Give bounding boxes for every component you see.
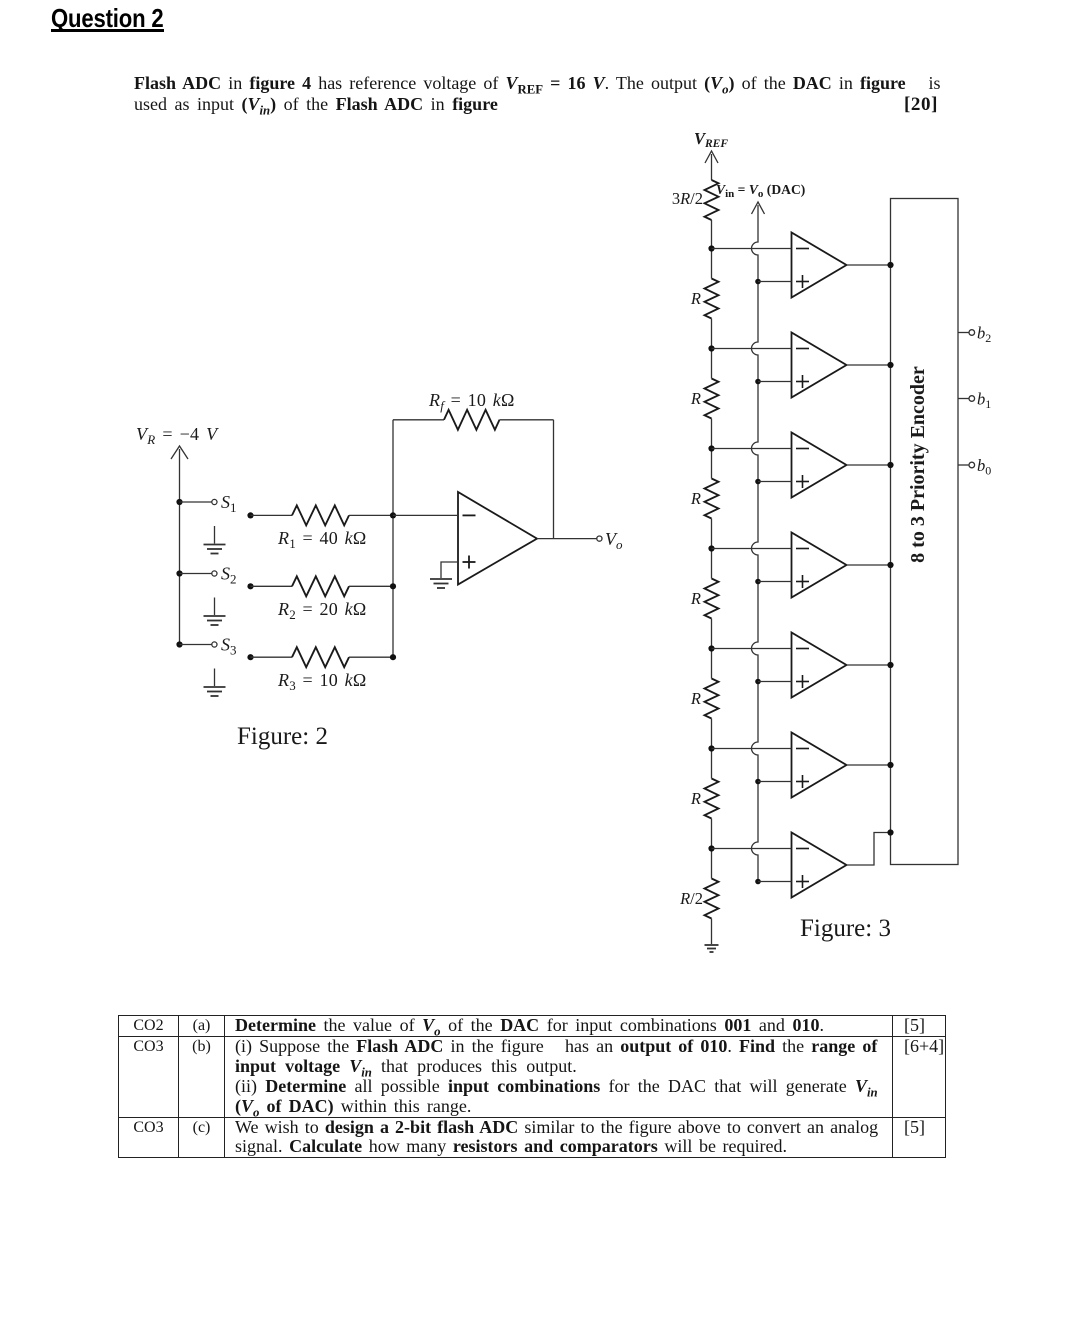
wire: inverting input: [393, 514, 458, 516]
junction output U1 at encoder: [887, 262, 893, 268]
resistor R/2: [705, 849, 719, 945]
node S2 junction: [176, 570, 182, 576]
tap node 5: [708, 645, 714, 651]
svg-text:S1: S1: [221, 492, 237, 515]
junction output U7 at encoder: [887, 829, 893, 835]
wire: Vin line with hops: [752, 205, 759, 882]
resistor Rf feedback: [393, 410, 554, 430]
resistor R2: [251, 576, 394, 596]
junction Vin plus U6: [755, 779, 761, 785]
svg-text:Vo: Vo: [605, 529, 623, 552]
node S1 junction: [176, 499, 182, 505]
resistor R3 ladder: [705, 449, 719, 549]
svg-text:Vin = Vo (DAC): Vin = Vo (DAC): [716, 182, 805, 200]
wire: minus input U7: [712, 848, 792, 850]
svg-text:R: R: [690, 489, 701, 508]
comparator U1: [792, 233, 847, 298]
wire: output U2: [847, 364, 891, 366]
wire: output U6: [847, 764, 891, 766]
wire: feedback right leg: [553, 420, 555, 539]
node R3 input: [247, 654, 253, 660]
comparator U3: [792, 433, 847, 498]
paragraph line 2: [134, 94, 498, 115]
tap node 3: [708, 445, 714, 451]
junction output U4 at encoder: [887, 562, 893, 568]
wire: minus input U5: [712, 648, 792, 650]
svg-text:R1 = 40 kΩ: R1 = 40 kΩ: [277, 528, 366, 551]
switch S3: [180, 642, 217, 647]
svg-text:b0: b0: [977, 456, 991, 478]
wire: non-inverting input: [441, 562, 458, 578]
comparator U2: [792, 333, 847, 398]
comparator U5: [792, 633, 847, 698]
terminal Vo: [597, 536, 602, 541]
wire: plus input U7: [758, 881, 792, 883]
junction summing node R1: [390, 512, 396, 518]
ground at op-amp +: [430, 579, 452, 588]
junction summing node R3: [390, 654, 396, 660]
source VR arrow: [171, 446, 188, 459]
svg-text:S3: S3: [221, 635, 237, 658]
svg-text:Rf = 10 kΩ: Rf = 10 kΩ: [428, 390, 515, 413]
svg-text:R: R: [690, 289, 701, 308]
resistor R3: [251, 647, 394, 667]
junction output U5 at encoder: [887, 662, 893, 668]
junction output U3 at encoder: [887, 462, 893, 468]
tap node 1: [708, 245, 714, 251]
resistor R1: [251, 505, 394, 525]
junction Vin plus U5: [755, 679, 761, 685]
resistor R4 ladder: [705, 549, 719, 649]
wire: plus input U5: [758, 681, 792, 683]
ground ladder bottom: [705, 945, 719, 952]
junction Vin plus U7: [755, 879, 761, 885]
comparator U6: [792, 733, 847, 798]
wire: output U7 step: [847, 833, 891, 866]
ground below S2: [204, 598, 226, 626]
svg-text:R3 = 10 kΩ: R3 = 10 kΩ: [277, 670, 366, 693]
wire: plus input U6: [758, 781, 792, 783]
wire: minus input U3: [712, 448, 792, 450]
tap node 6: [708, 745, 714, 751]
tap node 7: [708, 845, 714, 851]
junction Vin plus U2: [755, 379, 761, 385]
assessment table: [118, 1015, 946, 1158]
wire: plus input U3: [758, 481, 792, 483]
resistor R1 ladder: [705, 249, 719, 349]
resistor 3R/2: [705, 180, 719, 249]
wire: output U1: [847, 264, 891, 266]
wire: output U5: [847, 664, 891, 666]
wire: plus input U1: [758, 281, 792, 283]
svg-text:R2 = 20 kΩ: R2 = 20 kΩ: [277, 599, 366, 622]
source Vin arrow: [752, 202, 765, 214]
svg-text:Figure: 3: Figure: 3: [800, 915, 891, 942]
wire: output: [537, 538, 597, 540]
wire: output U4: [847, 564, 891, 566]
svg-text:3R/2: 3R/2: [672, 189, 703, 208]
resistor R2 ladder: [705, 349, 719, 449]
node R1 input: [247, 512, 253, 518]
svg-text:8 to 3 Priority Encoder: 8 to 3 Priority Encoder: [907, 366, 929, 563]
wire: plus input U2: [758, 381, 792, 383]
ground below S3: [204, 669, 226, 697]
ladder resistors R: [705, 249, 719, 945]
heading underline: [51, 29, 164, 32]
source VREF arrow: [705, 151, 718, 180]
wire: summing bus: [392, 420, 394, 657]
svg-text:Figure: 2: Figure: 2: [237, 723, 328, 750]
svg-text:VREF: VREF: [694, 129, 728, 150]
tap node 2: [708, 345, 714, 351]
wire: minus input U1: [712, 248, 792, 250]
svg-text:R: R: [690, 689, 701, 708]
junction output U6 at encoder: [887, 762, 893, 768]
output b1 lead: [958, 396, 975, 402]
resistor R6 ladder: [705, 749, 719, 849]
node S3 junction: [176, 641, 182, 647]
junction Vin plus U3: [755, 479, 761, 485]
svg-text:R: R: [690, 389, 701, 408]
svg-text:VR = −4 V: VR = −4 V: [136, 424, 219, 447]
wire: minus input U4: [712, 548, 792, 550]
junction summing node R2: [390, 583, 396, 589]
encoder box: [891, 199, 959, 865]
wire: minus input U2: [712, 348, 792, 350]
junction Vin plus U1: [755, 279, 761, 285]
svg-text:R: R: [690, 789, 701, 808]
comparator U7: [792, 833, 847, 898]
output b0 lead: [958, 462, 975, 468]
tap node 4: [708, 545, 714, 551]
op-amp U1: [458, 492, 537, 585]
paragraph line 1: [134, 73, 941, 94]
junction output U2 at encoder: [887, 362, 893, 368]
resistor R5 ladder: [705, 649, 719, 749]
comparator U4: [792, 533, 847, 598]
wire: output U3: [847, 464, 891, 466]
svg-text:R/2: R/2: [679, 889, 703, 908]
node R2 input: [247, 583, 253, 589]
wire: VR bus: [179, 449, 181, 645]
svg-text:b1: b1: [977, 390, 991, 412]
marks [20]: [904, 94, 938, 116]
wire: minus input U6: [712, 748, 792, 750]
svg-text:R: R: [690, 589, 701, 608]
ground below S1: [204, 526, 226, 554]
junction Vin plus U4: [755, 579, 761, 585]
wire: plus input U4: [758, 581, 792, 583]
svg-text:S2: S2: [221, 564, 237, 587]
output b2 lead: [958, 330, 975, 336]
svg-text:b2: b2: [977, 324, 991, 346]
comparators group: [712, 233, 894, 898]
switch S1: [180, 499, 217, 504]
switch S2: [180, 571, 217, 576]
heading Question 2: [51, 3, 164, 34]
